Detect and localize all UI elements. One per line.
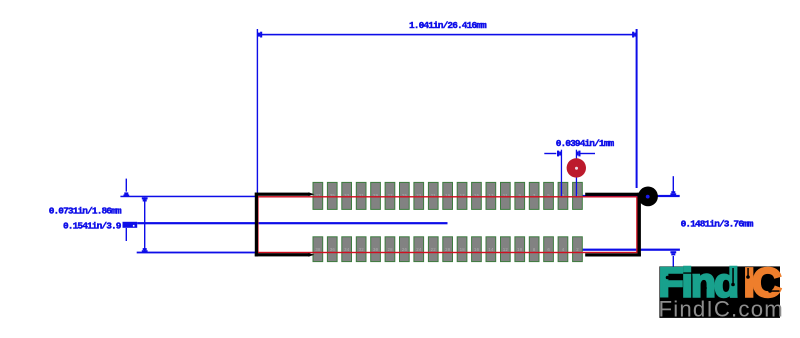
mechanical hole marker (black circle) [638, 187, 658, 207]
pad pin 3 [558, 182, 568, 209]
courtyard right (red) [636, 196, 637, 253]
pads bottom row [313, 237, 582, 262]
svg-text:0.1541in/3.9: 0.1541in/3.9 [63, 220, 122, 231]
pad pin 8 [529, 237, 539, 262]
pad pin 7 [529, 182, 539, 209]
dimension D2 arrowhead top [142, 197, 148, 199]
dimension D1 upper arrow stem [126, 179, 127, 192]
node: blue dot in black circle [646, 195, 650, 199]
silkscreen right bottom horizontal (black) [585, 253, 641, 256]
pad pin 23 [414, 182, 424, 209]
dimension right upper arrowhead [671, 191, 675, 193]
wire: right extension line bottom [576, 249, 680, 251]
pad pin 2 [573, 237, 583, 262]
courtyard bottom (red) [257, 252, 637, 253]
arrowhead right of overall width dimension [634, 33, 636, 37]
pad pin 15 [472, 182, 482, 209]
pad pin 33 [342, 182, 352, 209]
wire: top dimension extension line right [636, 29, 638, 188]
silkscreen right top horizontal (black) [585, 193, 641, 196]
pad pin 24 [414, 237, 424, 262]
dimension D1 upper arrowhead [124, 192, 128, 194]
pin 1 marker (red circle) [567, 158, 586, 177]
pad pin 1 [573, 182, 583, 209]
dimension label D2 highlight box [123, 222, 138, 228]
pad pin 12 [501, 237, 511, 262]
courtyard left (red) [257, 196, 258, 253]
pad pin 26 [400, 237, 410, 262]
dimension right upper arrow stem [673, 176, 674, 191]
silkscreen left vertical (black) [255, 193, 258, 257]
pad pin 13 [486, 182, 496, 209]
svg-text:FindIC.com: FindIC.com [659, 296, 784, 321]
dimension arrow: pitch left [544, 153, 556, 154]
wire: pitch extension line pin1 [576, 150, 577, 197]
pad pin 14 [486, 237, 496, 262]
pad pin 16 [472, 237, 482, 262]
pad pin 21 [428, 182, 438, 209]
pads top row [313, 182, 582, 209]
pad pin 10 [515, 237, 525, 262]
pad pin 19 [443, 182, 453, 209]
dimension D1 lower arrow stem [126, 228, 127, 241]
pad pin 30 [371, 237, 381, 262]
dimension arrow: pitch right [581, 153, 596, 154]
pad pin 29 [371, 182, 381, 209]
pad pin 5 [544, 182, 554, 209]
wire: top dimension extension line left [257, 29, 258, 197]
svg-text:1.041in/26.416mm: 1.041in/26.416mm [409, 20, 487, 31]
pad pin 37 [313, 182, 323, 209]
pad pin 17 [457, 182, 467, 209]
pad pin 20 [443, 237, 453, 262]
pad pin 6 [544, 237, 554, 262]
pad pin 32 [356, 237, 366, 262]
pad pin 9 [515, 182, 525, 209]
wire: left extension line row1 centerline [120, 196, 258, 198]
silkscreen left top arrow tip [309, 192, 315, 196]
wire: right extension line top [576, 195, 680, 197]
dimension D2 stem [144, 197, 145, 252]
silkscreen left bottom horizontal (black) [255, 253, 310, 256]
pad pin 18 [457, 237, 467, 262]
pad pin 4 [558, 237, 568, 262]
pad pin 31 [356, 182, 366, 209]
pad pin 34 [342, 237, 352, 262]
silkscreen left top horizontal (black) [255, 193, 310, 196]
silkscreen right vertical (black) [638, 193, 641, 256]
FindIC logo background [659, 266, 780, 318]
dimension line: overall width [258, 34, 636, 36]
svg-text:0.0731in/1.86mm: 0.0731in/1.86mm [49, 206, 122, 217]
FindIC logo circuit dots [666, 268, 780, 297]
dimension D2 arrowhead bottom [143, 248, 147, 250]
wire: pitch extension line pin3 [561, 150, 562, 197]
arrowhead left of overall width dimension [258, 33, 260, 37]
wire: left extension line row2 centerline [137, 252, 258, 254]
silkscreen left bottom arrow tip [309, 253, 315, 257]
node: white dot in pin 1 marker [575, 167, 578, 170]
pad pin 22 [428, 237, 438, 262]
pad pin 27 [385, 182, 395, 209]
wire: middle centerline [137, 222, 447, 224]
pad pin 36 [327, 237, 337, 262]
pad pin 38 [313, 237, 323, 262]
svg-text:0.1481in/3.76mm: 0.1481in/3.76mm [681, 218, 754, 229]
courtyard top (red) [257, 196, 637, 197]
svg-text:0.0394in/1mm: 0.0394in/1mm [556, 138, 615, 149]
pad pin 28 [385, 237, 395, 262]
pad pin 35 [327, 182, 337, 209]
dimension right lower arrow stem [673, 256, 674, 268]
dimension right lower arrowhead [670, 251, 676, 253]
pad pin 11 [501, 182, 511, 209]
pad pin 25 [400, 182, 410, 209]
